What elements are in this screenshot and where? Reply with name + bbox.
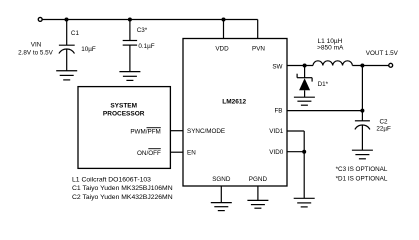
label parts list [72,176,173,201]
svg-text:L1 Coilcraft DO1606T-103: L1 Coilcraft DO1606T-103 [72,176,151,183]
label ON/OFF with overline [137,149,161,157]
svg-text:LM2612: LM2612 [222,98,246,105]
terminal VOUT output [389,63,393,67]
svg-text:SW: SW [272,63,282,70]
ground C1 ground [56,71,77,80]
node VID0 junction [302,150,306,154]
terminal VIN input [38,17,42,21]
diode D1 schottky [297,66,312,98]
svg-text:C2 Taiyo Yuden MK432BJ226MN: C2 Taiyo Yuden MK432BJ226MN [72,194,173,201]
svg-text:10µF: 10µF [81,46,96,53]
svg-text:PVN: PVN [252,45,265,52]
svg-text:0.1µF: 0.1µF [138,43,154,50]
svg-text:ON/OFF: ON/OFF [137,150,161,157]
node C3-rail junction [128,18,132,22]
svg-text:C1: C1 [71,30,80,37]
node FB-C2 junction [360,109,364,113]
svg-text:VDD: VDD [215,45,229,52]
label SYSTEM PROCESSOR [103,103,145,118]
svg-text:SGND: SGND [212,176,231,183]
capacitor C2 [355,121,370,150]
ground VID ground [294,198,315,207]
svg-text:VID0: VID0 [269,149,283,156]
ground PGND ground [247,200,268,208]
pin VDD stub [223,20,225,39]
wire VOUT tap down to FB and C2 [361,66,363,121]
node SW-D1 junction [303,64,307,68]
label PWM/PFM with overline [130,128,160,136]
svg-text:VOUT 1.5V: VOUT 1.5V [366,50,399,57]
svg-text:22µF: 22µF [376,125,391,132]
svg-text:PGND: PGND [249,176,268,183]
node C1-rail junction [65,18,69,22]
wire input rail [42,19,258,21]
svg-text:SYNC/MODE: SYNC/MODE [187,128,225,135]
node VDD-rail junction [222,18,226,22]
pin SGND stub [220,186,222,203]
svg-text:D1*: D1* [318,81,329,88]
capacitor C1 [59,20,75,71]
svg-text:*D1 IS OPTIONAL: *D1 IS OPTIONAL [336,175,388,182]
svg-text:SYSTEM: SYSTEM [110,103,137,110]
svg-text:C3*: C3* [137,27,148,34]
wire ON/OFF to EN [170,151,183,153]
svg-text:PWM/PFM: PWM/PFM [130,128,160,135]
svg-text:FB: FB [274,108,282,115]
svg-text:PROCESSOR: PROCESSOR [103,110,145,117]
svg-text:EN: EN [187,149,196,156]
svg-text:C1 Taiyo Yuden MK325BJ106MN: C1 Taiyo Yuden MK325BJ106MN [72,185,173,192]
ground C3 ground [119,72,140,81]
svg-text:*C3 IS OPTIONAL: *C3 IS OPTIONAL [336,166,388,173]
wire VID0 pin [287,151,304,153]
svg-text:2.8V to 5.5V: 2.8V to 5.5V [18,49,53,56]
processor box SYSTEM PROCESSOR [78,87,170,169]
svg-text:>850 mA: >850 mA [317,44,344,51]
ground D1 ground [294,97,315,105]
capacitor C3 [123,20,137,72]
label optional notes [336,166,388,182]
wire VID tie-down [303,131,305,198]
wire SW output [287,65,313,67]
svg-text:VID1: VID1 [269,128,283,135]
op-amp U1 LM2612 box [183,39,287,187]
label L1 value [317,38,344,51]
pin PGND stub [257,186,259,200]
ground SGND ground [211,203,232,211]
label VIN [18,42,53,57]
wire FB pin [287,110,362,112]
wire PWM/PFM to SYNC/MODE [170,130,183,132]
wire L1 to VOUT [352,65,388,67]
pin PVN stub [257,20,259,39]
ground C2 ground [352,150,373,159]
inductor L1 [313,61,352,66]
wire VID1 pin [287,130,304,132]
svg-text:VIN: VIN [31,42,42,49]
node FB-tap junction [360,64,364,68]
